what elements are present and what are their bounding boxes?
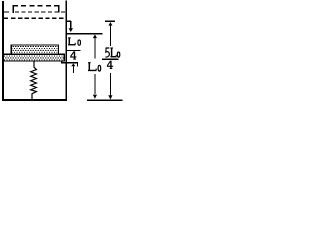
ground (right floor segment under dimensions) [87, 100, 122, 101]
dimension 5Lo/4 (right dimension line) [102, 22, 120, 100]
tick T1 (top reference tick at natural-length level) [67, 21, 72, 22]
label Lo/4 (fraction) [67, 38, 81, 59]
tick T2 (top cap of 5Lo/4 dimension) [105, 21, 115, 22]
wire (reference line at compressed plate-top level) [67, 33, 103, 35]
ground (left floor segment under spring) [2, 99, 67, 101]
wire (reference line at plate bottom level) [61, 61, 78, 67]
block ghost (dashed outline of block original position) [13, 5, 60, 13]
wire (dashed line: original plate top level) [3, 11, 65, 12]
wire (dashed line: original plate bottom level) [3, 18, 65, 19]
node R (right boundary extension line) [65, 1, 67, 101]
dimension Lo (middle dimension line) [88, 34, 101, 98]
wall (left vertical support line) [2, 1, 4, 101]
arrow D1 (down arrow of Lo/4 dimension) [69, 21, 74, 32]
spring [31, 62, 37, 100]
plate (platform on spring) [3, 54, 65, 61]
arrow U1 (up arrow of Lo/4 dimension) [71, 64, 75, 73]
block M (solid block on plate) [11, 45, 58, 54]
